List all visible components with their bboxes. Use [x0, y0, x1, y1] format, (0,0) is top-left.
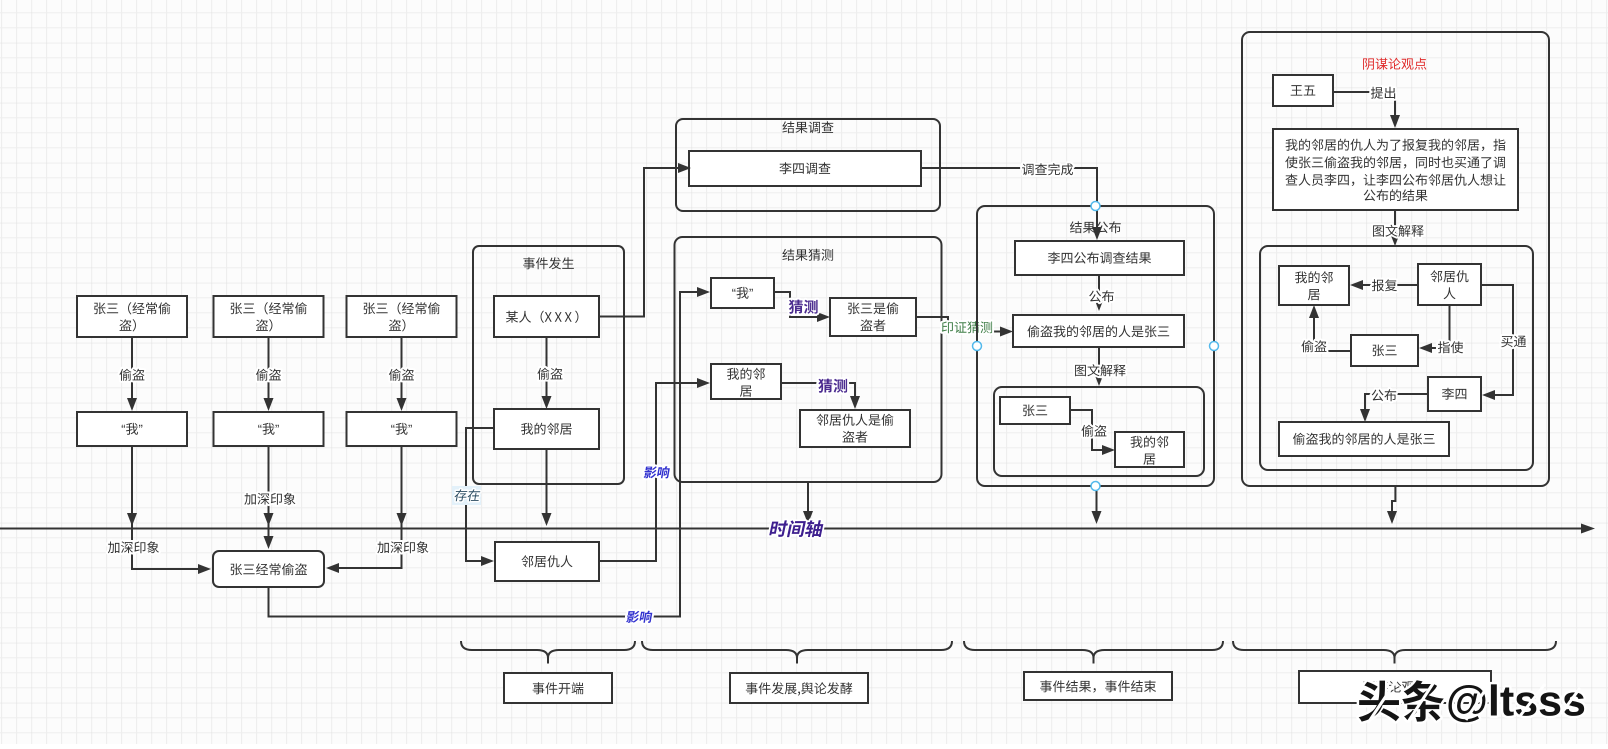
node 我的邻居 (事件发生)	[494, 409, 599, 449]
wire 加深印象 col3 (我 -> 张三经常偷盗)	[326, 446, 428, 573]
container 事件发生	[473, 246, 624, 484]
wire 偷盗 (张三 -> 我的邻居, 结果公布)	[1070, 410, 1115, 455]
container 结果公布	[977, 206, 1214, 486]
wire 偷盗 arrow col2	[256, 337, 281, 411]
wire 报复 (邻居仇人 -> 我的邻居)	[1350, 279, 1418, 291]
node 张三 (阴谋论)	[1351, 335, 1418, 366]
wire 存在 (我的邻居 -> 邻居仇人)	[452, 428, 494, 566]
timeline axis	[0, 524, 1595, 534]
node 张三（经常偷盗） col2	[214, 296, 324, 337]
node 邻居仇人是偷盗者	[800, 410, 910, 447]
node 偷盗我的邻居的人是张三 (结果公布)	[1013, 315, 1184, 347]
node 我 col1	[77, 412, 187, 446]
wire 图文解释 (结果公布)	[1075, 347, 1126, 386]
watermark 头条@ltsss	[1359, 678, 1584, 723]
node 偷盗我的邻居的人是张三 (阴谋论)	[1279, 422, 1449, 456]
node 阴谋论观点 (底部)	[1299, 671, 1491, 703]
node 阴谋论描述文本	[1273, 129, 1518, 210]
brace 事件结果	[964, 641, 1223, 664]
brace 事件开端	[461, 641, 635, 664]
container 结果猜测	[675, 237, 942, 482]
wire 猜测 (我 -> 张三是偷盗者)	[774, 292, 830, 322]
wire 指使 (邻居仇人 -> 张三)	[1419, 305, 1463, 353]
container 阴谋论观点	[1242, 32, 1549, 486]
wire 印证猜测 (张三是偷盗者 -> 偷盗我的邻居的人是张三)	[916, 317, 1013, 337]
node 李四 (阴谋论)	[1428, 377, 1481, 411]
wire 加深印象 col2 (我 -> 张三经常偷盗)	[244, 446, 295, 549]
wire 某人 -> 李四调查	[599, 163, 691, 317]
node 我 col3	[347, 412, 457, 446]
node 事件开端	[504, 673, 612, 703]
brace 阴谋论	[1233, 641, 1556, 664]
node 张三是偷盗者	[830, 298, 916, 336]
node 我的邻居 (结果猜测)	[711, 364, 781, 399]
node 李四调查	[689, 151, 921, 186]
node 邻居仇人	[495, 542, 599, 581]
wire 加深印象 col1 (我 -> 张三经常偷盗)	[108, 446, 211, 574]
wire 偷盗 arrow col1	[119, 337, 144, 411]
selection handles 结果公布	[973, 202, 1219, 491]
wire 阴谋论 -> 时间轴	[1387, 486, 1397, 524]
node 我 col2	[214, 412, 324, 446]
wire 猜测 (我的邻居 -> 邻居仇人是偷盗者)	[781, 379, 860, 409]
node 我的邻居 (结果公布)	[1115, 432, 1184, 467]
brace 事件发展	[642, 641, 952, 664]
container 图文解释内框 (阴谋论)	[1260, 246, 1533, 470]
wire 调查完成 (李四调查 -> 结果公布)	[921, 163, 1102, 240]
wire 公布 (李四公布调查结果 -> 偷盗我的邻居的人是张三)	[1089, 275, 1114, 311]
wire 图文解释 (阴谋论)	[1373, 210, 1424, 246]
wire 偷盗 arrow col3	[389, 337, 414, 411]
node 邻居仇人 (阴谋论)	[1418, 264, 1481, 305]
node 张三经常偷盗	[213, 551, 324, 587]
wire 提出 (王五 -> 阴谋论文本)	[1333, 87, 1400, 128]
node 张三（经常偷盗） col1	[77, 296, 187, 337]
node 我 (结果猜测)	[711, 278, 774, 308]
wire 影响 (张三经常偷盗 -> 我/猜测)	[269, 287, 711, 623]
wire 结果猜测 -> 时间轴	[803, 482, 813, 524]
wire 偷盗 (某人 -> 我的邻居)	[537, 337, 562, 409]
node 某人（XXX）	[494, 296, 599, 337]
wire 偷盗 (张三 -> 我的邻居, 阴谋论)	[1301, 305, 1351, 352]
container 结果调查	[676, 119, 940, 211]
node 我的邻居 (阴谋论)	[1279, 266, 1349, 305]
node 事件结果，事件结束	[1024, 672, 1172, 700]
node 张三（经常偷盗） col3	[347, 296, 457, 337]
wire 公布 (李四 -> 偷盗我的邻居的人是张三)	[1360, 389, 1428, 422]
wire 影响 (邻居仇人 -> 我的邻居/猜测)	[599, 378, 710, 561]
node 事件发展,舆论发酵	[730, 673, 868, 703]
node 李四公布调查结果	[1015, 241, 1184, 275]
wire 结果公布 -> 时间轴	[1092, 490, 1102, 524]
wire 买通 (邻居仇人 -> 李四)	[1481, 285, 1526, 400]
wire 我的邻居 -> 时间轴	[542, 449, 552, 526]
label 时间轴	[769, 520, 824, 537]
node 王五	[1273, 75, 1333, 106]
node 张三 (结果公布)	[1000, 397, 1070, 424]
container 图文解释内框 (结果公布)	[994, 387, 1204, 476]
